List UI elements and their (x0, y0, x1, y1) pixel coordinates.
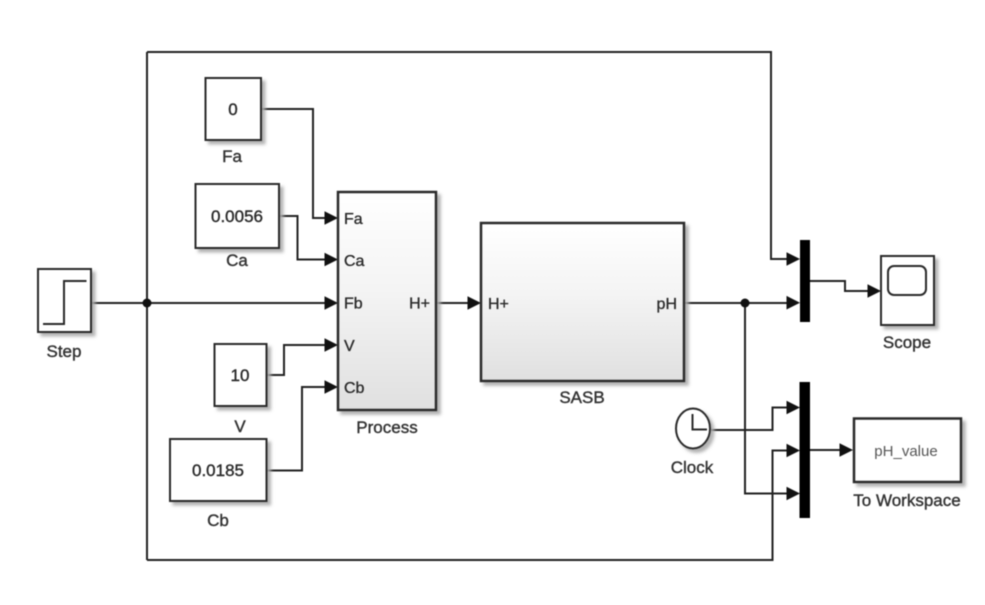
svg-text:Ca: Ca (226, 251, 248, 270)
svg-text:V: V (234, 417, 246, 436)
svg-text:V: V (344, 338, 355, 355)
svg-text:To Workspace: To Workspace (853, 491, 960, 510)
svg-text:H+: H+ (409, 296, 430, 313)
svg-text:Cb: Cb (207, 511, 229, 530)
svg-text:0.0056: 0.0056 (211, 207, 263, 226)
svg-text:pH_value: pH_value (874, 443, 937, 460)
svg-text:SASB: SASB (559, 388, 604, 407)
svg-text:H+: H+ (488, 296, 509, 313)
svg-text:Fb: Fb (344, 296, 363, 313)
svg-text:Fa: Fa (222, 147, 242, 166)
svg-text:Clock: Clock (671, 458, 714, 477)
svg-text:Process: Process (356, 418, 417, 437)
svg-text:Scope: Scope (883, 333, 931, 352)
svg-text:Ca: Ca (344, 253, 365, 270)
svg-text:0.0185: 0.0185 (192, 461, 244, 480)
svg-text:10: 10 (231, 366, 250, 385)
svg-text:Fa: Fa (344, 211, 363, 228)
svg-text:0: 0 (228, 100, 237, 119)
svg-text:pH: pH (657, 296, 677, 313)
svg-text:Step: Step (47, 342, 82, 361)
svg-text:Cb: Cb (344, 380, 365, 397)
